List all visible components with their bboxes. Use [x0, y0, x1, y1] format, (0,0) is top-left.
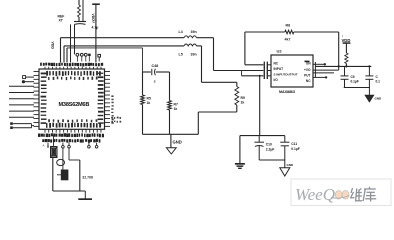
svg-text:0.1μF: 0.1μF: [291, 147, 300, 151]
svg-text:INPUT: INPUT: [274, 67, 284, 71]
svg-text:L5: L5: [179, 53, 183, 57]
svg-text:A: A: [43, 144, 45, 148]
svg-text:1k: 1k: [174, 107, 178, 111]
svg-text:C9: C9: [351, 75, 355, 79]
svg-text:39n: 39n: [191, 53, 197, 57]
svg-text:PUT: PUT: [304, 74, 310, 78]
svg-text:GND: GND: [287, 163, 295, 167]
svg-text:GND: GND: [375, 97, 383, 101]
svg-text:39n: 39n: [191, 30, 197, 34]
svg-text:C11: C11: [291, 142, 297, 146]
svg-text:c: c: [154, 80, 156, 84]
svg-text:1k: 1k: [241, 101, 245, 105]
svg-text:0.1μF: 0.1μF: [351, 80, 359, 84]
svg-text:4k7: 4k7: [285, 38, 291, 42]
svg-text:VDD: VDD: [51, 42, 55, 50]
svg-text:L4: L4: [179, 30, 183, 34]
svg-text:R9: R9: [241, 96, 245, 100]
svg-text:MAX8863: MAX8863: [279, 90, 295, 94]
svg-text:1k: 1k: [147, 101, 151, 105]
svg-text:4.7μ: 4.7μ: [92, 26, 99, 30]
svg-text:WeeQ: WeeQ: [295, 185, 335, 204]
svg-text:0.1: 0.1: [376, 80, 381, 84]
svg-text:VDD: VDD: [91, 14, 95, 22]
svg-text:REF: REF: [58, 15, 65, 19]
svg-text:32.768: 32.768: [82, 176, 93, 180]
svg-text:VDD: VDD: [342, 38, 351, 43]
svg-text:NC: NC: [306, 79, 311, 83]
svg-text:U2: U2: [277, 49, 283, 54]
svg-text:+VO: +VO: [304, 68, 311, 72]
svg-text:GND: GND: [173, 140, 182, 145]
svg-text:S INPUTOUTPUT: S INPUTOUTPUT: [274, 73, 298, 77]
svg-text:2.2μF: 2.2μF: [266, 148, 275, 152]
svg-text:R8: R8: [286, 24, 291, 28]
svg-text:NC: NC: [274, 62, 279, 66]
svg-text:I/O: I/O: [274, 78, 279, 82]
svg-text:C10: C10: [266, 143, 272, 147]
svg-text:R5: R5: [147, 97, 151, 101]
svg-text:R7: R7: [174, 103, 178, 107]
svg-text:C48: C48: [152, 64, 159, 68]
svg-text:M38S62M6B: M38S62M6B: [59, 102, 90, 108]
